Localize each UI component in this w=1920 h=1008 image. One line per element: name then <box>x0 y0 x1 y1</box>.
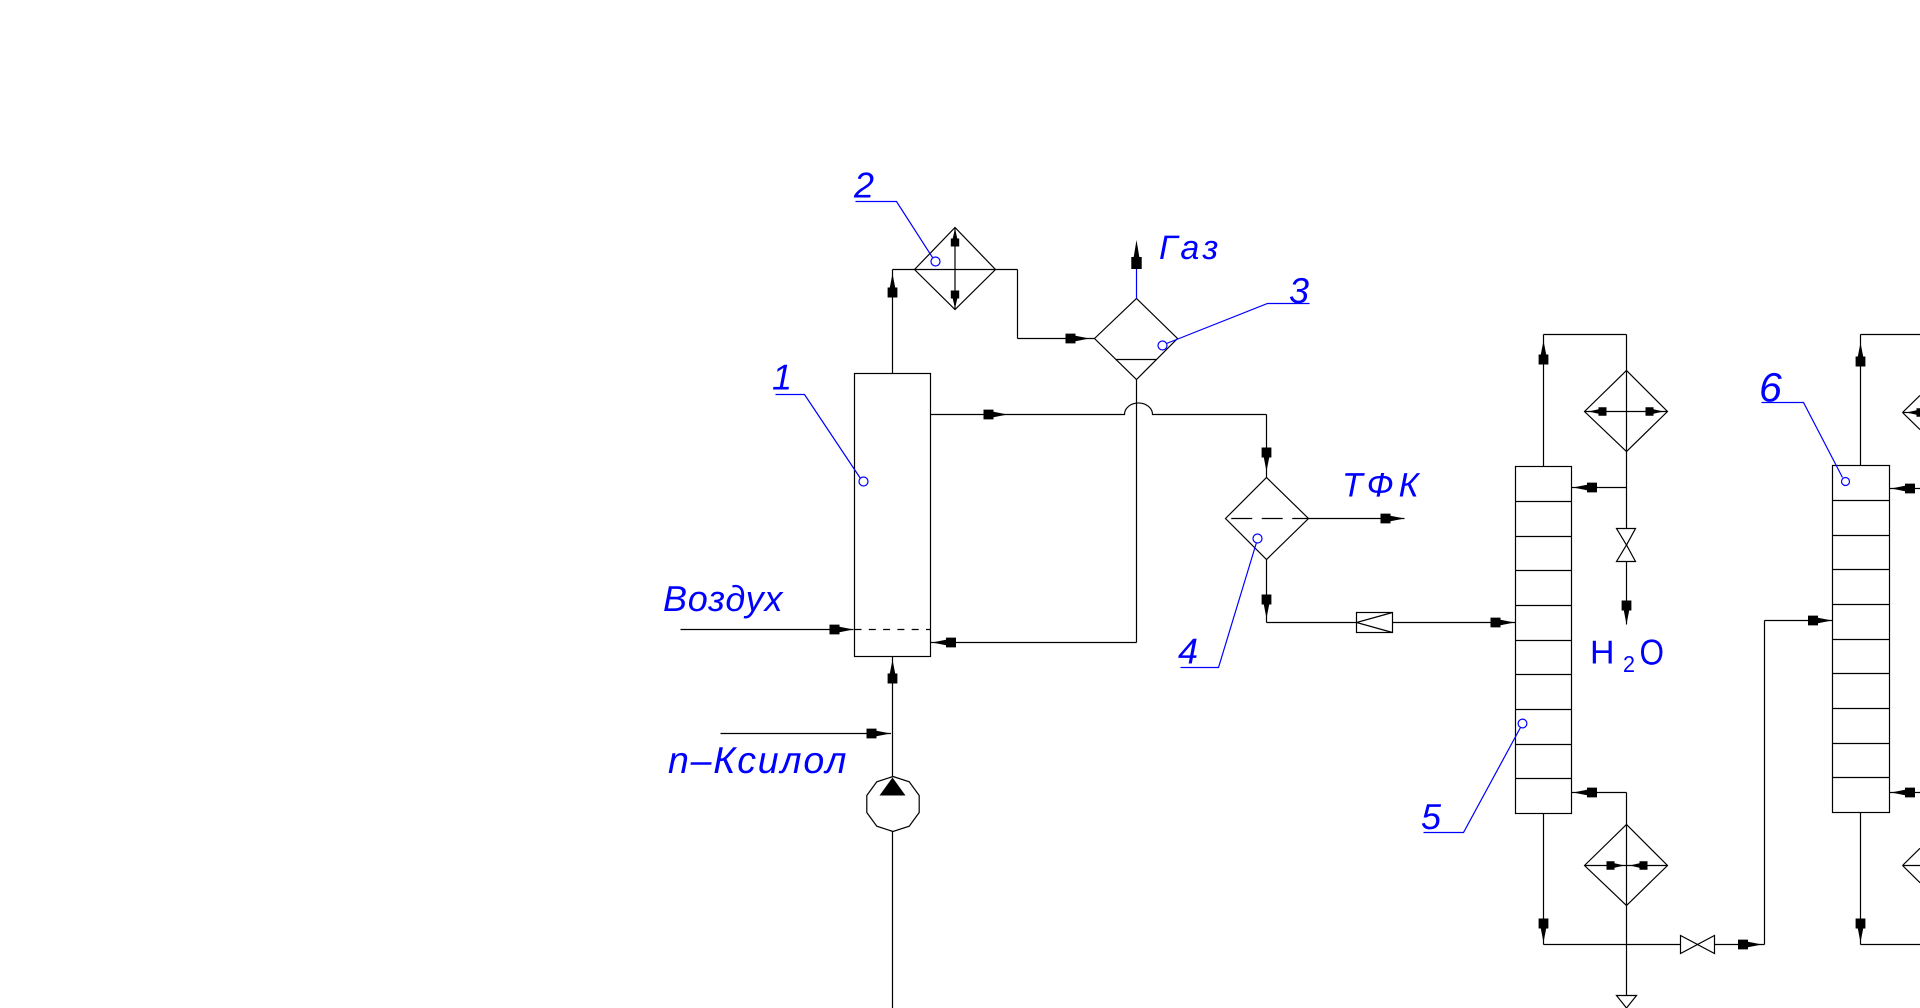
svg-text:4: 4 <box>1178 631 1198 672</box>
svg-text:ТФК: ТФК <box>1342 467 1424 505</box>
svg-text:3: 3 <box>1289 270 1309 311</box>
svg-text:2: 2 <box>853 165 874 206</box>
svg-text:H: H <box>1590 634 1615 671</box>
svg-text:1: 1 <box>772 357 792 398</box>
svg-text:Газ: Газ <box>1159 229 1222 267</box>
svg-text:2: 2 <box>1623 651 1635 677</box>
svg-text:6: 6 <box>1759 365 1782 411</box>
svg-text:O: O <box>1640 632 1665 673</box>
svg-text:n–Ксилол: n–Ксилол <box>668 739 848 781</box>
svg-text:Воздух: Воздух <box>663 578 784 619</box>
svg-text:5: 5 <box>1421 796 1442 837</box>
